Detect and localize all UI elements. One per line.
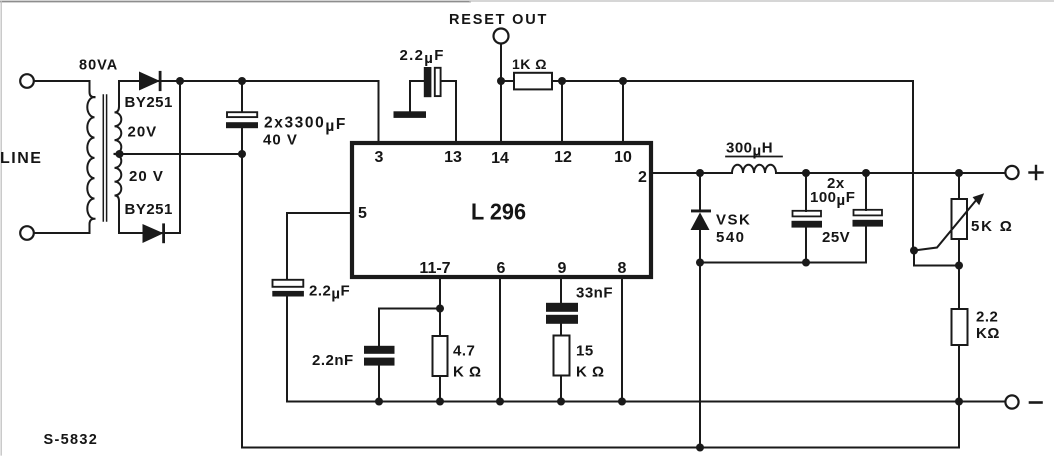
- transformer T1 primary: [87, 81, 94, 233]
- node gnd pin8: [618, 398, 626, 406]
- wire pin 2 output: [651, 172, 1006, 174]
- terminal LINE top: [20, 74, 34, 88]
- svg-text:15: 15: [576, 343, 594, 360]
- svg-text:8: 8: [618, 260, 627, 277]
- inductor 300uH: [732, 165, 776, 173]
- svg-text:K Ω: K Ω: [576, 364, 605, 381]
- svg-text:5: 5: [358, 205, 367, 222]
- node wiper junction: [910, 247, 918, 255]
- svg-text:LINE: LINE: [0, 150, 42, 167]
- capacitor 100uF #1: [805, 173, 807, 263]
- resistor 1K: [501, 80, 514, 82]
- svg-text:2.2: 2.2: [976, 309, 998, 326]
- diode VSK540: [699, 173, 701, 448]
- node cap1 bottom: [802, 259, 810, 267]
- wire pin 6: [499, 279, 501, 402]
- capacitor 2.2uF top leads: [410, 81, 456, 141]
- svg-text:5K Ω: 5K Ω: [971, 218, 1014, 235]
- wire center tap: [115, 153, 243, 155]
- potentiometer 5K body: [958, 173, 960, 266]
- wire top rail to pin 3: [180, 81, 379, 141]
- transformer T1 secondary bottom winding: [115, 154, 122, 233]
- svg-text:RESET OUT: RESET OUT: [449, 12, 548, 28]
- capacitor 2x3300uF leads: [241, 81, 243, 448]
- svg-text:3: 3: [375, 149, 384, 166]
- svg-text:11-7: 11-7: [419, 260, 450, 277]
- wire pin 8: [621, 279, 623, 402]
- node cap1 top: [802, 169, 810, 177]
- svg-text:25V: 25V: [822, 229, 850, 246]
- label underline 300uH: [726, 156, 782, 158]
- wire line-top to transformer: [34, 80, 90, 82]
- node VSK top: [696, 169, 704, 177]
- svg-text:540: 540: [716, 229, 746, 246]
- svg-text:12: 12: [554, 149, 572, 166]
- svg-text:BY251: BY251: [125, 94, 173, 111]
- svg-text:9: 9: [558, 260, 567, 277]
- node cap2 top: [862, 169, 870, 177]
- wire pin 9: [560, 279, 562, 303]
- wire branch to 2.2nF: [379, 309, 440, 347]
- node gnd 15K: [557, 398, 565, 406]
- node gnd right: [955, 398, 963, 406]
- terminal - output: [1005, 395, 1018, 408]
- capacitor 2x3300uF plates: [227, 112, 257, 117]
- wire 33nF to 15K: [560, 324, 562, 336]
- op-amp U1 L296 box: [352, 143, 651, 277]
- label - sign: [1030, 401, 1042, 404]
- svg-text:6: 6: [497, 260, 506, 277]
- node VSK bottom: [696, 259, 704, 267]
- diode BY251 top: [139, 71, 162, 91]
- wire pin 5: [287, 213, 352, 279]
- wire pin 11-7: [439, 279, 441, 336]
- diode BY251 bottom: [143, 223, 166, 243]
- svg-text:20 V: 20 V: [129, 168, 164, 185]
- node filter cap top: [238, 77, 246, 85]
- node pin12 junction: [558, 77, 566, 85]
- svg-text:1K Ω: 1K Ω: [512, 56, 547, 72]
- svg-text:KΩ: KΩ: [976, 325, 1000, 342]
- ground rail: [287, 401, 1005, 403]
- svg-text:33nF: 33nF: [576, 285, 613, 302]
- svg-text:L 296: L 296: [471, 199, 526, 225]
- wire caps bottom: [700, 262, 866, 264]
- node center tap: [116, 150, 124, 158]
- svg-text:2: 2: [638, 169, 647, 186]
- svg-text:VSK: VSK: [716, 212, 751, 229]
- capacitor 100uF #2: [865, 173, 867, 263]
- capacitor 2.2nF plates: [364, 346, 395, 354]
- wire to pin 10: [622, 81, 624, 141]
- wire bottom diode branch: [119, 232, 180, 234]
- transformer T1 secondary top winding: [115, 81, 122, 154]
- svg-text:2.2nF: 2.2nF: [312, 352, 354, 369]
- resistor 4.7K: [433, 336, 448, 376]
- node gnd pin6: [496, 398, 504, 406]
- node gnd 2.2nF: [375, 398, 383, 406]
- wire 2.2uF to rail: [286, 296, 288, 402]
- lower return rail: [242, 402, 959, 448]
- terminal LINE bottom: [20, 226, 34, 240]
- wire to pin 12: [561, 81, 563, 141]
- potentiometer wiper arrow: [914, 199, 978, 251]
- label + sign: [1030, 166, 1043, 179]
- svg-text:4.7: 4.7: [453, 343, 475, 360]
- wire reset out to pin 14: [500, 44, 502, 142]
- svg-text:100µF: 100µF: [810, 189, 855, 209]
- node reset junction: [497, 77, 505, 85]
- resistor 15K: [554, 336, 570, 376]
- wire line-bottom to transformer: [34, 232, 90, 234]
- svg-text:BY251: BY251: [125, 201, 173, 218]
- scan border left: [0, 1, 2, 455]
- node gnd 4.7K: [436, 398, 444, 406]
- scan border top: [0, 1, 470, 3]
- wire wiper to pot bottom: [914, 251, 959, 266]
- terminal + output: [1005, 166, 1018, 179]
- transformer core: [103, 95, 106, 221]
- node pot top: [955, 169, 963, 177]
- node pin10 junction: [619, 77, 627, 85]
- svg-text:80VA: 80VA: [79, 58, 118, 74]
- svg-text:20V: 20V: [128, 124, 158, 141]
- node pot bottom: [955, 262, 963, 270]
- capacitor 33nF plates: [546, 303, 578, 312]
- wire top diode branch: [119, 80, 180, 82]
- terminal RESET OUT: [494, 29, 509, 44]
- svg-text:14: 14: [491, 150, 509, 167]
- node rectifier output: [176, 77, 184, 85]
- svg-text:13: 13: [444, 149, 462, 166]
- capacitor 2.2uF top plates: [424, 67, 432, 97]
- node pin11-7 branch: [436, 305, 444, 313]
- ground bar: [394, 111, 427, 118]
- wire 2.2nF to rail: [378, 366, 380, 402]
- node center tap / cap junction: [238, 150, 246, 158]
- capacitor 2.2uF pin5 plates: [273, 280, 304, 287]
- svg-text:10: 10: [614, 149, 632, 166]
- svg-text:40 V: 40 V: [263, 132, 298, 149]
- svg-text:K Ω: K Ω: [453, 364, 482, 381]
- wire rectifier output vertical: [179, 81, 181, 233]
- resistor 2.2K: [958, 266, 960, 310]
- node lower rail VSK: [696, 444, 704, 452]
- svg-text:S-5832: S-5832: [44, 432, 99, 448]
- IC pin labels: [358, 149, 647, 277]
- wire feedback drop: [912, 81, 914, 251]
- svg-text:2.2µF: 2.2µF: [400, 47, 445, 67]
- svg-text:2.2µF: 2.2µF: [309, 283, 350, 303]
